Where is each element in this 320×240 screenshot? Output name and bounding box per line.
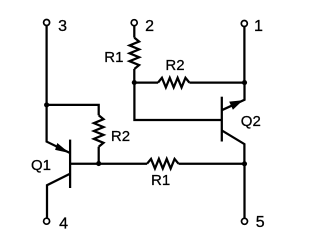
terminal 2	[131, 20, 137, 26]
wire R2 vertical bottom stem	[98, 147, 100, 164]
svg-text:5: 5	[256, 214, 265, 231]
svg-text:3: 3	[58, 18, 67, 35]
svg-text:4: 4	[59, 215, 68, 232]
svg-text:Q2: Q2	[241, 113, 261, 130]
junction dot below R2 vertical	[96, 161, 101, 166]
junction dot below R1 vertical	[132, 80, 137, 85]
svg-text:Q1: Q1	[31, 157, 51, 174]
terminal 5	[242, 218, 248, 224]
resistor R2 (horizontal, top)	[158, 78, 189, 88]
svg-text:R2: R2	[165, 57, 184, 74]
svg-text:R1: R1	[104, 49, 123, 66]
wire Q1 collector to terminal 4	[47, 174, 71, 219]
wire R1 vertical bottom stem	[133, 69, 135, 83]
wire R1 to Q2 collector junction	[179, 163, 245, 165]
wire node to R2 vertical top	[47, 105, 99, 115]
wire Q2 base branch	[134, 83, 221, 120]
svg-text:R2: R2	[111, 128, 130, 145]
wire terminal1 stem	[243, 27, 245, 83]
transistor Q1 bar	[69, 140, 71, 188]
Q1 emitter arrow (PNP, pointing into bar)	[55, 143, 69, 153]
wire R2 horizontal to Q2 emitter junction	[189, 81, 244, 83]
wire terminal2 stem	[133, 26, 135, 38]
resistor R1 (vertical, top)	[130, 38, 140, 69]
svg-text:2: 2	[145, 18, 154, 35]
transistor Q2 bar	[221, 97, 223, 142]
wire R1 junction to R2 horizontal	[134, 81, 158, 83]
terminal 3	[44, 20, 50, 26]
terminal 1	[241, 21, 247, 27]
terminal 4	[44, 218, 50, 224]
wire junction to terminal 5	[243, 164, 245, 219]
svg-text:1: 1	[254, 18, 263, 35]
junction dot at terminal3 wire	[44, 102, 49, 107]
svg-text:R1: R1	[151, 172, 170, 189]
resistor R1 (horizontal, bottom)	[147, 159, 178, 169]
wire Q2 collector to junction	[222, 130, 245, 163]
wire terminal3 stem to Q1 emitter	[47, 25, 70, 153]
wire Q1 base to R1	[70, 163, 147, 165]
resistor R2 (vertical)	[94, 115, 104, 146]
wire Q2 emitter	[222, 83, 245, 111]
junction dot at Q2 collector node	[242, 161, 247, 166]
Q2 emitter arrow (NPN, pointing outward)	[229, 100, 243, 110]
junction dot at Q2 emitter node	[242, 80, 247, 85]
